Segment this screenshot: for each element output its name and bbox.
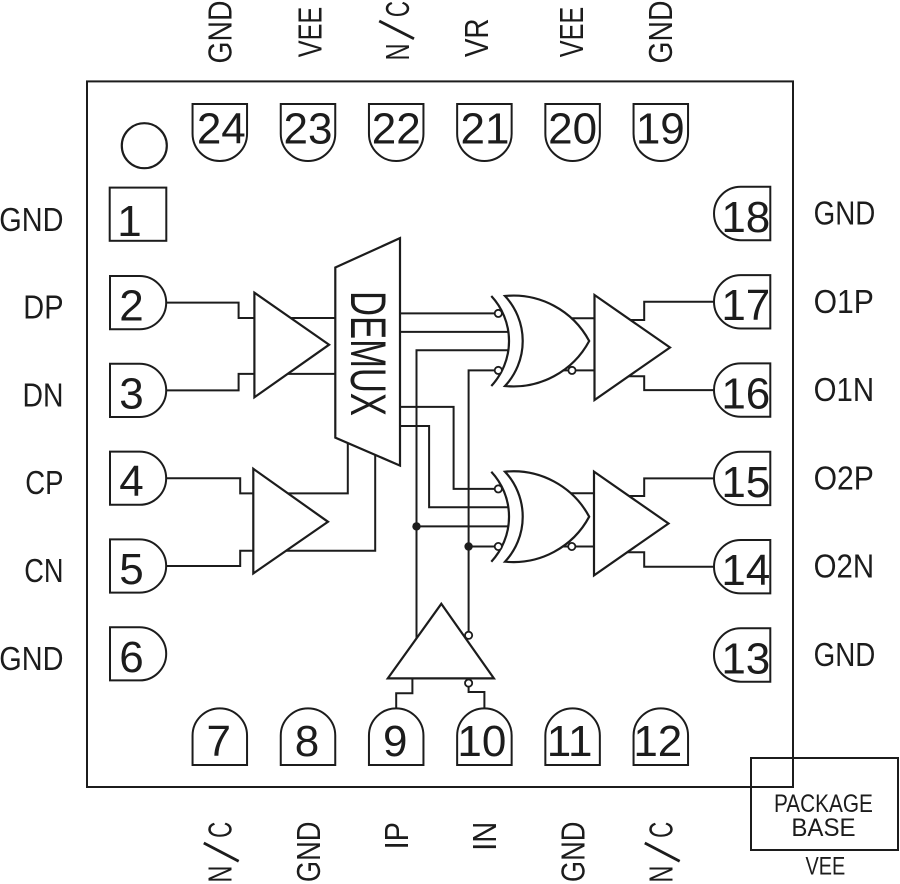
wire U7 output N to pin 16 O1N xyxy=(629,376,714,390)
svg-text:C: C xyxy=(643,822,680,838)
pin 15 xyxy=(714,452,770,505)
pin 23 xyxy=(281,104,336,161)
pin 7 xyxy=(193,708,248,765)
pin 17 xyxy=(714,275,770,328)
wire DEMUX out3 to XOR U5 input 1 xyxy=(400,407,495,489)
svg-text:IP: IP xyxy=(378,822,415,849)
wire U8 output N to pin 14 O2N xyxy=(627,552,714,566)
svg-text:N: N xyxy=(202,866,239,883)
wire U7 output P to pin 17 O1P xyxy=(631,302,715,320)
output amplifier U8 xyxy=(594,472,669,576)
wire pin9 IP to buffer U6 xyxy=(396,678,412,708)
svg-text:14: 14 xyxy=(721,546,770,595)
wire DEMUX out1 to XOR U4 input 1 xyxy=(400,312,495,314)
wire pin5 CN to buffer U2 xyxy=(166,551,253,566)
svg-text:VEE: VEE xyxy=(291,7,328,57)
inversion bubble U4 output N xyxy=(568,367,575,374)
wire DEMUX out4 to XOR U5 input 2 xyxy=(400,426,509,507)
wire XOR U5 output P to amp U8 xyxy=(570,492,594,494)
pin 1 xyxy=(110,188,167,241)
svg-text:DEMUX: DEMUX xyxy=(340,291,396,416)
wire U1 output P to DEMUX xyxy=(291,317,336,319)
pin 18 xyxy=(714,187,770,240)
svg-text:9: 9 xyxy=(383,717,407,766)
pin 11 xyxy=(545,708,600,765)
svg-text:15: 15 xyxy=(721,458,770,507)
svg-text:VEE: VEE xyxy=(806,853,846,881)
pin 22 xyxy=(369,104,424,161)
wire XOR U5 output N to amp U8 xyxy=(562,546,594,548)
wire pin2 DP to buffer U1 xyxy=(166,303,254,318)
pin 20 xyxy=(545,104,600,161)
wire net IN vertical from buffer U6 xyxy=(469,370,495,632)
svg-text:GND: GND xyxy=(0,201,64,238)
svg-text:3: 3 xyxy=(119,369,143,418)
svg-text:O1P: O1P xyxy=(814,283,874,320)
DEMUX block U3 xyxy=(335,238,400,466)
wire U1 output N to DEMUX xyxy=(288,373,336,375)
pin 21 xyxy=(457,104,512,161)
svg-text:1: 1 xyxy=(117,197,141,246)
chip outline border xyxy=(87,81,793,787)
pin 24 xyxy=(193,104,248,161)
svg-text:7: 7 xyxy=(207,717,231,766)
inversion bubble U6 input N xyxy=(465,680,472,687)
svg-text:C: C xyxy=(202,822,239,838)
svg-text:13: 13 xyxy=(721,634,770,683)
svg-text:GND: GND xyxy=(814,195,876,232)
wire net IP vertical from buffer U6 xyxy=(417,350,509,638)
pin 9 xyxy=(369,708,424,765)
svg-text:21: 21 xyxy=(461,105,510,154)
wire U2 output P to DEMUX bottom xyxy=(288,443,348,493)
pin 19 xyxy=(634,104,689,161)
buffer U1 (DP/DN data input) xyxy=(254,293,329,398)
wire U2 output N to DEMUX bottom xyxy=(286,455,375,551)
wire DEMUX out2 to XOR U4 input 2 xyxy=(400,331,509,333)
svg-text:17: 17 xyxy=(721,281,770,330)
svg-text:N: N xyxy=(643,866,680,883)
svg-text:8: 8 xyxy=(295,717,319,766)
wire IP branch to XOR U5 input 3 xyxy=(417,525,509,527)
pin 8 xyxy=(281,708,336,765)
inversion bubble U5 input 1 xyxy=(495,485,502,492)
pin 13 xyxy=(714,628,770,681)
pin 6 xyxy=(110,627,166,680)
svg-text:DP: DP xyxy=(23,289,63,326)
pin 16 xyxy=(714,363,770,416)
svg-text:18: 18 xyxy=(721,193,770,242)
pin 3 xyxy=(110,364,166,417)
wire U8 output P to pin 15 O2P xyxy=(629,478,714,496)
svg-text:23: 23 xyxy=(284,105,333,154)
svg-text:VR: VR xyxy=(458,18,495,57)
svg-text:N: N xyxy=(379,43,416,60)
input buffer U6 (IP/IN) xyxy=(388,604,494,679)
svg-text:4: 4 xyxy=(119,457,143,506)
pin 4 xyxy=(110,452,166,505)
inversion bubble U6 output N xyxy=(465,632,472,639)
output amplifier U7 xyxy=(595,295,671,400)
pin 12 xyxy=(634,708,689,765)
svg-text:6: 6 xyxy=(119,633,143,682)
svg-text:C: C xyxy=(379,1,416,17)
svg-text:11: 11 xyxy=(547,717,593,766)
svg-text:19: 19 xyxy=(636,105,685,154)
svg-text:DN: DN xyxy=(23,376,64,413)
svg-text:O2N: O2N xyxy=(814,548,875,585)
svg-text:GND: GND xyxy=(814,636,876,673)
wire XOR U4 output P to amp U7 xyxy=(571,317,595,319)
inversion bubble U5 input 4 xyxy=(495,543,502,550)
wire pin4 CP to buffer U2 xyxy=(166,478,253,493)
PACKAGE BASE box xyxy=(751,758,898,850)
svg-text:5: 5 xyxy=(119,545,143,594)
svg-text:O2P: O2P xyxy=(814,459,874,496)
svg-text:GND: GND xyxy=(554,822,591,883)
svg-text:CN: CN xyxy=(24,552,63,589)
XOR gate U5 input arc xyxy=(491,472,509,562)
svg-text:BASE: BASE xyxy=(791,814,855,842)
XOR gate U4 body xyxy=(505,296,589,387)
svg-text:2: 2 xyxy=(119,282,143,331)
svg-text:GND: GND xyxy=(0,640,64,677)
wire pin3 DN to buffer U1 xyxy=(166,374,254,391)
svg-text:IN: IN xyxy=(466,822,503,851)
wire XOR U4 output N to amp U7 xyxy=(563,369,595,371)
svg-text:10: 10 xyxy=(457,717,506,766)
XOR gate U5 body xyxy=(505,471,589,562)
svg-text:12: 12 xyxy=(633,717,682,766)
pin 5 xyxy=(110,539,166,592)
pin 14 xyxy=(714,540,770,593)
wire IN branch to XOR U5 input 4 xyxy=(469,546,495,548)
svg-text:O1N: O1N xyxy=(814,371,875,408)
XOR gate U4 input arc xyxy=(491,296,509,386)
svg-text:22: 22 xyxy=(372,105,421,154)
svg-text:20: 20 xyxy=(548,105,597,154)
svg-text:16: 16 xyxy=(721,370,770,419)
inversion bubble U5 output N xyxy=(568,543,575,550)
svg-text:GND: GND xyxy=(290,822,327,883)
pin 10 xyxy=(457,708,512,765)
svg-text:24: 24 xyxy=(197,105,246,154)
buffer U2 (CP/CN clock input) xyxy=(253,469,328,574)
wire pin10 IN to buffer U6 xyxy=(469,687,485,708)
svg-text:CP: CP xyxy=(25,464,63,501)
svg-text:GND: GND xyxy=(202,1,239,64)
inversion bubble U4 input 4 xyxy=(495,367,502,374)
junction dot IP net xyxy=(412,522,420,530)
svg-text:VEE: VEE xyxy=(553,7,590,57)
inversion bubble U4 input 1 xyxy=(495,310,502,317)
pin 2 xyxy=(110,276,166,329)
svg-text:GND: GND xyxy=(642,1,679,64)
pin 1 index marker circle xyxy=(122,123,167,168)
junction dot IN net xyxy=(464,542,472,550)
